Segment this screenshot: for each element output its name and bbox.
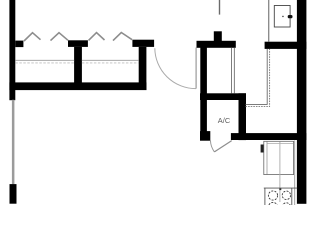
stove top tick [279,189,281,191]
half-wall double line inner [246,49,268,105]
counter inner line top [267,142,293,144]
entry door swing arc [155,48,196,88]
bifold door chevron 3 [89,33,105,41]
closet shelf line upper left [15,59,74,61]
burner bottom-right [282,203,290,211]
closet shelf line lower left [15,62,74,64]
wall: closet middle T bar [68,40,88,47]
wall: left bottom stub [10,184,17,204]
wall: entry top [197,41,236,48]
wall: A/C closet top [200,93,246,100]
refrigerator dot [282,16,283,17]
bifold door chevron 1 [24,33,41,41]
wall: closet bottom [9,82,146,90]
wall: A/C closet right [239,93,247,140]
hallway cased opening double line left [230,48,233,94]
stove left edge [264,188,266,205]
counter edge line fridge nook [268,0,269,42]
svg-text:A/C: A/C [218,116,231,125]
stove top edge line [264,187,297,189]
wall: left closet jamb stub [15,41,23,48]
closet shelf line upper right [82,59,139,61]
counter edge line right [294,140,296,205]
refrigerator handle [288,15,293,18]
A/C door swing arc [210,140,214,152]
A/C door leaf [214,141,231,152]
entry door leaf [195,48,197,89]
hallway cased opening double line right [233,48,236,94]
window: left wall lower [12,100,15,185]
counter inner line left [266,142,268,175]
stove right edge [291,188,293,205]
half-wall double line outer [246,49,270,107]
burner top-left [268,191,277,200]
wall: closet right T stem [139,47,147,84]
closet shelf line lower right [82,62,139,64]
counter/dishwasher outline [264,141,294,174]
wall: left exterior upper [9,0,15,100]
bifold door chevron 2 [51,33,69,41]
wall: hall vertical [200,48,207,133]
thin wall line top [219,0,220,15]
dishwasher handle [261,145,264,153]
wall: closet middle T stem [74,47,82,84]
wall: top right horizontal [265,42,307,49]
wall: closet right T bar [132,40,154,47]
wall: right exterior [297,0,307,204]
counter mid divider line [279,142,281,203]
wall: hall foot stub [200,131,210,141]
refrigerator outline [274,6,290,28]
bifold door chevron 4 [113,33,132,41]
wall: kitchen north [231,133,307,140]
burner top-right [282,191,290,199]
burner bottom-left [268,202,277,211]
wall: stub above entry wall [214,31,222,41]
